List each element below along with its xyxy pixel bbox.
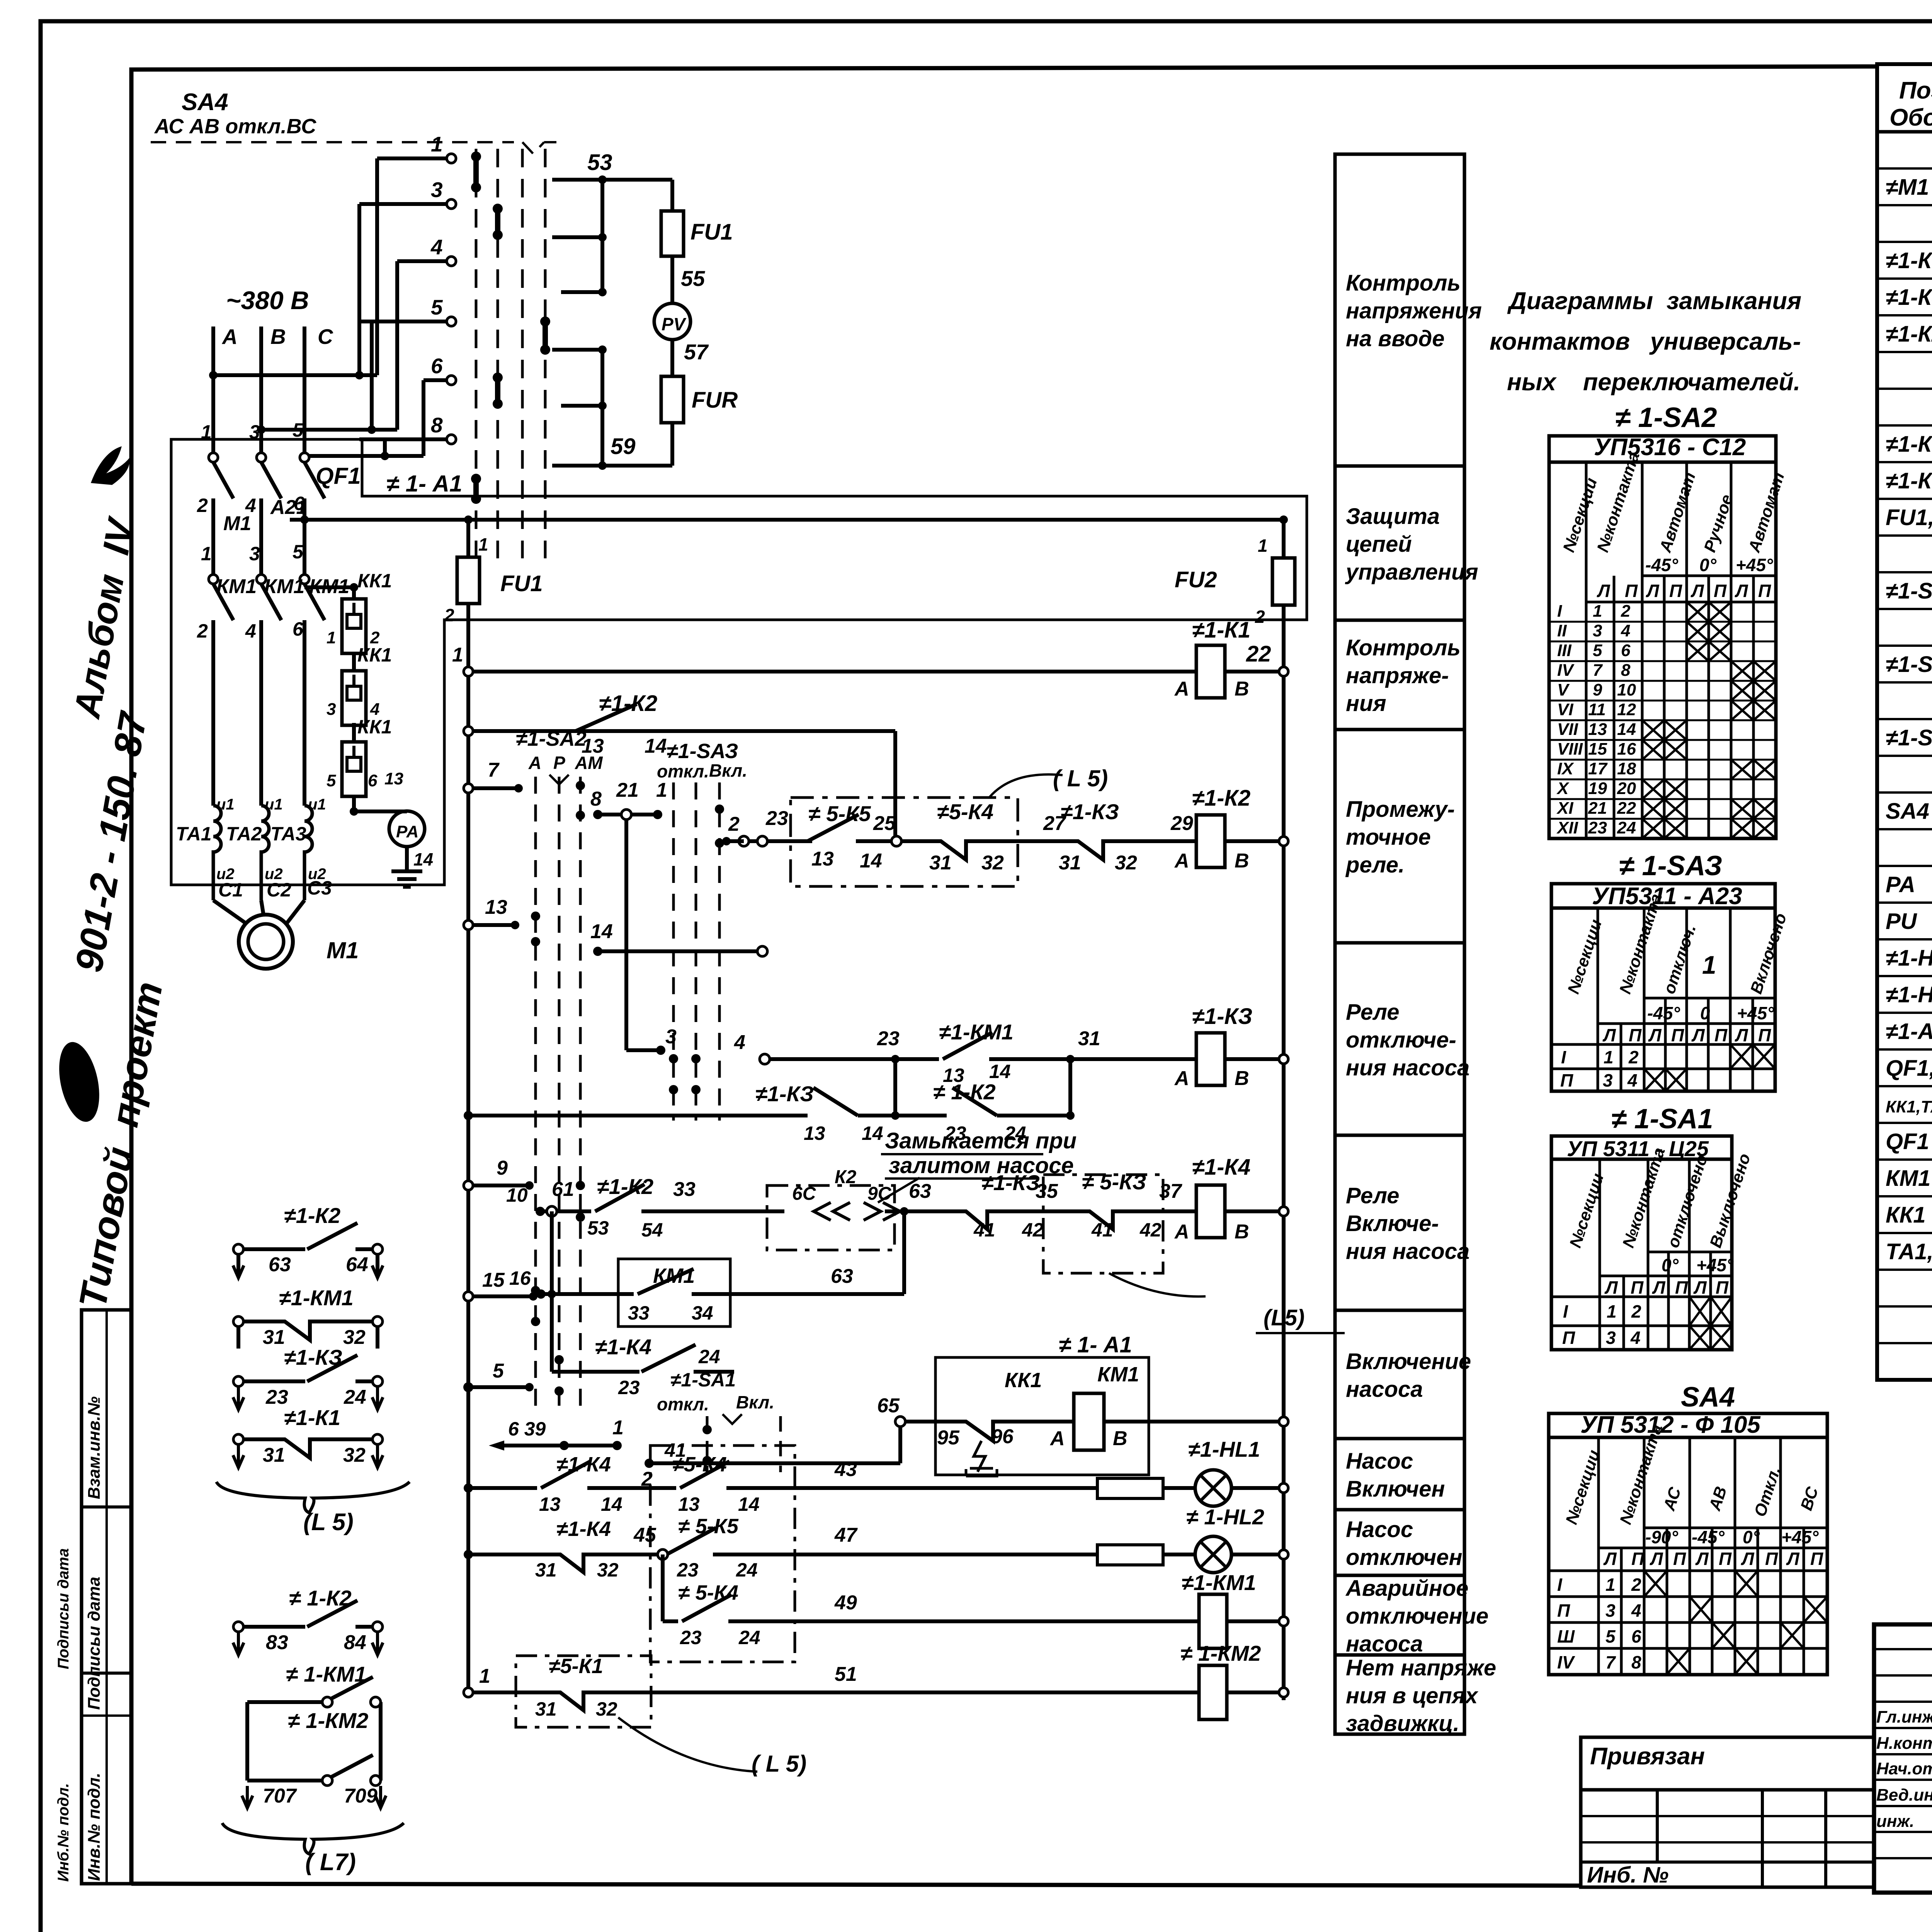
svg-text:49: 49	[834, 1592, 857, 1614]
svg-text:≠1-КЗ: ≠1-КЗ	[981, 1170, 1040, 1195]
svg-text:≠1-HL1: ≠1-HL1	[1886, 946, 1932, 971]
parts list table grid	[1877, 64, 1932, 1380]
svg-text:13: 13	[811, 848, 834, 870]
svg-text:УП 5311 - Ц25: УП 5311 - Ц25	[1567, 1136, 1709, 1161]
svg-text:≠1-К4: ≠1-К4	[595, 1335, 651, 1359]
svg-text:П: П	[1810, 1549, 1823, 1569]
svg-text:83: 83	[266, 1631, 288, 1654]
contact 5-K5 23-24	[667, 1528, 716, 1554]
svg-text:2: 2	[197, 620, 208, 642]
svg-text:Л: Л	[1690, 581, 1704, 601]
ballast resistor	[1097, 1545, 1163, 1565]
svg-text:6: 6	[294, 493, 305, 514]
svg-text:Подписьи дата: Подписьи дата	[55, 1548, 72, 1669]
svg-text:≠1-КЗ,К4: ≠1-КЗ,К4	[1886, 285, 1932, 310]
svg-text:Инб. №: Инб. №	[1587, 1862, 1668, 1888]
ground symbol	[391, 871, 422, 887]
svg-text:≠1-К1: ≠1-К1	[1192, 617, 1250, 643]
svg-text:5: 5	[1605, 1626, 1616, 1646]
svg-text:23: 23	[677, 1559, 699, 1581]
svg-text:10: 10	[506, 1184, 528, 1206]
svg-text:≠1-HL2: ≠1-HL2	[1886, 982, 1932, 1007]
svg-text:51: 51	[835, 1663, 857, 1685]
parts table rows text	[1886, 136, 1932, 1338]
svg-text:33: 33	[628, 1302, 650, 1324]
SA3 moving contacts	[717, 809, 722, 843]
svg-text:насоса: насоса	[1346, 1377, 1423, 1402]
svg-text:41: 41	[1091, 1219, 1113, 1241]
svg-text:XI: XI	[1556, 799, 1573, 818]
svg-text:FU2: FU2	[1175, 567, 1217, 592]
svg-text:9: 9	[497, 1157, 508, 1179]
svg-text:Гл.инж.пр: Гл.инж.пр	[1876, 1708, 1932, 1726]
svg-text:32: 32	[597, 1559, 619, 1581]
svg-text:FU1: FU1	[500, 571, 543, 596]
svg-text:3: 3	[1605, 1600, 1616, 1621]
svg-text:цепей: цепей	[1346, 532, 1412, 557]
svg-text:4: 4	[245, 495, 256, 516]
svg-text:≠ 5-К5: ≠ 5-К5	[678, 1515, 739, 1538]
svg-text:1: 1	[1593, 602, 1602, 621]
svg-text:31: 31	[535, 1698, 557, 1720]
svg-text:24: 24	[344, 1386, 366, 1408]
svg-text:А: А	[221, 325, 238, 349]
svg-text:3: 3	[249, 421, 260, 443]
svg-text:≠1-SАЗ: ≠1-SАЗ	[667, 740, 738, 763]
svg-text:Л: Л	[1646, 581, 1660, 601]
svg-text:Л: Л	[1693, 1277, 1707, 1298]
svg-text:Взам.инв.№: Взам.инв.№	[85, 1396, 104, 1499]
svg-text:Обознач: Обознач	[1889, 104, 1932, 131]
svg-text:-90°: -90°	[1645, 1527, 1678, 1547]
KK1 reset symbol	[966, 1441, 997, 1476]
svg-text:0: 0	[1700, 1003, 1710, 1023]
svg-text:ния в цепях: ния в цепях	[1346, 1683, 1479, 1708]
svg-text:ТА1: ТА1	[176, 823, 212, 845]
rung 1 wire	[468, 670, 1196, 673]
svg-text:8: 8	[431, 413, 443, 437]
svg-text:≠ 1-HL2: ≠ 1-HL2	[1186, 1505, 1264, 1529]
svg-text:Защита: Защита	[1346, 504, 1440, 529]
svg-text:≠1-А1: ≠1-А1	[1886, 1019, 1932, 1044]
dash-dot enclosure L5 top	[791, 774, 1063, 886]
svg-text:Насос: Насос	[1346, 1517, 1413, 1542]
svg-text:КМ1: КМ1	[264, 575, 304, 598]
rung 10 wire	[468, 1690, 537, 1694]
svg-text:≠1-КМ1: ≠1-КМ1	[939, 1020, 1014, 1044]
svg-text:I: I	[1557, 602, 1562, 621]
svg-text:Вкл.: Вкл.	[736, 1392, 774, 1412]
svg-text:4: 4	[1630, 1328, 1641, 1348]
dash-dot box around 5-K3	[1043, 1175, 1163, 1273]
svg-text:24: 24	[738, 1627, 760, 1648]
svg-text:Ш: Ш	[1557, 1626, 1575, 1646]
svg-text:4: 4	[245, 620, 256, 642]
svg-text:П: П	[1671, 1025, 1684, 1045]
thermal relay KK1 heaters	[352, 587, 356, 599]
svg-text:А: А	[1174, 850, 1189, 872]
svg-text:0°: 0°	[1662, 1255, 1679, 1275]
svg-text:15: 15	[482, 1269, 505, 1291]
svg-text:+45°: +45°	[1737, 1003, 1774, 1023]
svg-text:≠ 1- А1: ≠ 1- А1	[1059, 1332, 1132, 1357]
stub 7	[468, 786, 519, 790]
svg-text:≠1-КМ1: ≠1-КМ1	[1182, 1570, 1256, 1595]
node 53 vertical collector	[600, 180, 604, 292]
svg-text:≠1-КН1,: ≠1-КН1,	[1886, 432, 1932, 457]
svg-text:QF1: QF1	[316, 463, 361, 489]
current transformers TA1 TA2 TA3	[213, 806, 221, 900]
svg-text:14: 14	[989, 1061, 1011, 1082]
svg-text:57: 57	[684, 340, 709, 364]
svg-text:П: П	[1673, 1549, 1686, 1569]
svg-text:14: 14	[1617, 720, 1636, 739]
svg-text:Н.контр.: Н.контр.	[1876, 1734, 1932, 1753]
svg-text:3: 3	[327, 700, 336, 719]
stub 15	[468, 1294, 533, 1298]
svg-text:14: 14	[601, 1493, 622, 1515]
wire C to SA4 contact 6	[304, 454, 423, 458]
svg-text:≠5-К1: ≠5-К1	[549, 1655, 603, 1678]
contact 5-K4 13-14	[680, 1461, 730, 1488]
svg-text:41: 41	[664, 1439, 686, 1461]
svg-text:1: 1	[478, 534, 488, 554]
svg-text:8: 8	[1621, 661, 1631, 680]
svg-text:КК1: КК1	[357, 716, 392, 738]
svg-text:2: 2	[1255, 607, 1265, 627]
svg-text:≠1-КМ1: ≠1-КМ1	[279, 1286, 354, 1310]
svg-text:Л: Л	[1650, 1549, 1663, 1569]
svg-text:1: 1	[431, 132, 443, 156]
riser from 45 node	[661, 1554, 665, 1621]
svg-text:23: 23	[765, 807, 788, 830]
svg-text:Л: Л	[1735, 1025, 1748, 1045]
svg-text:5: 5	[431, 295, 443, 319]
svg-text:11: 11	[1588, 700, 1606, 719]
svg-text:16: 16	[1617, 740, 1636, 759]
svg-text:Реле: Реле	[1346, 1183, 1399, 1208]
title block text	[1876, 1651, 1932, 1924]
svg-text:0°: 0°	[1699, 555, 1717, 575]
wire 2 to node 65	[649, 1461, 900, 1465]
ballast resistor	[1097, 1478, 1163, 1498]
privyazan block	[1581, 1737, 1874, 1887]
svg-text:IV: IV	[1557, 1652, 1575, 1672]
svg-text:23: 23	[618, 1377, 640, 1398]
svg-text:2: 2	[197, 495, 208, 516]
svg-text:QF1,КМ1,: QF1,КМ1,	[1886, 1056, 1932, 1081]
svg-text:инж.: инж.	[1876, 1812, 1914, 1831]
svg-text:53: 53	[587, 150, 612, 175]
svg-text:9С: 9С	[867, 1184, 892, 1204]
svg-text:FU1,FUR: FU1,FUR	[1886, 505, 1932, 530]
svg-text:22: 22	[1246, 641, 1271, 667]
relay coil 1-K1	[1196, 645, 1225, 698]
svg-text:8: 8	[590, 788, 602, 810]
svg-text:SА4: SА4	[1886, 799, 1929, 824]
svg-text:47: 47	[834, 1524, 858, 1546]
svg-text:6: 6	[1631, 1626, 1641, 1646]
svg-text:П: П	[1765, 1549, 1778, 1569]
svg-text:П: П	[1560, 1070, 1573, 1090]
svg-text:1: 1	[479, 1665, 490, 1687]
svg-text:6: 6	[1621, 641, 1631, 660]
svg-text:П: П	[1714, 581, 1727, 601]
svg-text:≠М1: ≠М1	[1886, 175, 1929, 200]
svg-text:контактов универсаль-: контактов универсаль-	[1490, 328, 1801, 355]
svg-text:-45°: -45°	[1692, 1527, 1725, 1547]
svg-text:FUR: FUR	[692, 388, 738, 413]
svg-text:4: 4	[1621, 621, 1630, 640]
svg-text:+45°: +45°	[1736, 555, 1773, 575]
svg-text:П: П	[1562, 1328, 1575, 1348]
svg-text:4: 4	[370, 700, 379, 719]
svg-text:напряжения: напряжения	[1346, 298, 1482, 323]
svg-text:84: 84	[344, 1631, 366, 1654]
svg-text:15: 15	[1588, 740, 1607, 759]
unit 1-A1 box	[935, 1357, 1149, 1475]
svg-text:ТА2: ТА2	[226, 823, 262, 845]
svg-text:13: 13	[1588, 720, 1607, 739]
svg-text:63: 63	[831, 1265, 853, 1287]
svg-text:КК1: КК1	[357, 570, 392, 592]
svg-text:14: 14	[862, 1122, 883, 1144]
svg-text:1: 1	[201, 543, 212, 565]
svg-text:Поз.: Поз.	[1899, 77, 1932, 104]
svg-text:95: 95	[937, 1427, 960, 1449]
svg-text:≠1-К1: ≠1-К1	[1886, 248, 1932, 273]
contact 1-K3 41-42	[951, 1211, 1024, 1229]
rung 8 wire	[468, 1553, 537, 1556]
svg-text:АМ: АМ	[575, 753, 603, 773]
svg-text:6: 6	[293, 618, 304, 640]
svg-text:Замыкается при: Замыкается при	[885, 1128, 1077, 1153]
contact 1-K4 13-14	[541, 1461, 590, 1488]
KK1 wiring	[304, 585, 354, 589]
brace L5	[216, 1482, 410, 1513]
svg-text:≠ 5-К4: ≠ 5-К4	[678, 1581, 738, 1604]
svg-text:Нач.отд.: Нач.отд.	[1876, 1759, 1932, 1778]
svg-text:≠1-К2: ≠1-К2	[597, 1174, 653, 1199]
svg-text:QF1: QF1	[1886, 1129, 1929, 1154]
svg-text:I: I	[1557, 1575, 1563, 1595]
svg-text:54: 54	[641, 1219, 663, 1241]
svg-text:PU: PU	[1886, 909, 1918, 934]
fuse FU1 control	[457, 557, 480, 604]
svg-text:П: П	[1714, 1025, 1728, 1045]
risers to rung 4	[893, 1059, 897, 1116]
svg-text:управления: управления	[1345, 560, 1478, 585]
svg-text:53: 53	[587, 1217, 609, 1239]
svg-text:1: 1	[612, 1417, 624, 1439]
left margin stamp column	[82, 1310, 132, 1884]
svg-text:6: 6	[368, 771, 378, 790]
stub 13	[468, 923, 515, 927]
svg-text:709: 709	[344, 1785, 378, 1807]
control tap wire A21	[290, 518, 1284, 522]
svg-text:( L 5): ( L 5)	[1053, 765, 1108, 791]
svg-text:Л: Л	[1597, 581, 1611, 601]
svg-text:96: 96	[991, 1425, 1014, 1448]
svg-text:откл.: откл.	[657, 1394, 709, 1414]
svg-text:напряже-: напряже-	[1346, 663, 1449, 688]
svg-text:1: 1	[1702, 951, 1716, 979]
voltmeter PV	[654, 303, 690, 340]
svg-text:1: 1	[656, 779, 667, 801]
svg-text:23: 23	[1588, 818, 1607, 837]
svg-text:IV: IV	[1557, 661, 1575, 680]
svg-text:А: А	[1049, 1427, 1065, 1450]
svg-text:59: 59	[611, 434, 636, 459]
svg-text:ТА1,2,3: ТА1,2,3	[1886, 1239, 1932, 1264]
svg-text:АС АВ откл.ВС: АС АВ откл.ВС	[154, 115, 316, 138]
svg-text:3: 3	[1603, 1070, 1613, 1090]
SA4 fixed contact terminals	[377, 156, 449, 160]
svg-text:Включе-: Включе-	[1346, 1211, 1439, 1236]
svg-text:(L 5): (L 5)	[303, 1509, 354, 1536]
relay coil 1-K2	[1196, 815, 1225, 867]
svg-text:КК1: КК1	[1886, 1202, 1926, 1228]
svg-text:6: 6	[431, 354, 443, 378]
svg-text:П: П	[1629, 1025, 1642, 1045]
circuit breaker QF1	[211, 448, 215, 453]
svg-text:23: 23	[680, 1627, 702, 1648]
svg-text:≠ 1-SА2: ≠ 1-SА2	[1615, 402, 1717, 433]
svg-text:реле.: реле.	[1345, 852, 1405, 878]
SA2 moving contacts	[578, 786, 583, 815]
svg-text:19: 19	[1588, 779, 1607, 798]
stub 5	[468, 1385, 529, 1389]
SA1 moving contact	[704, 1430, 710, 1461]
svg-text:32: 32	[343, 1444, 366, 1466]
svg-text:В: В	[1235, 1067, 1249, 1090]
svg-text:23: 23	[877, 1027, 900, 1050]
svg-text:31: 31	[263, 1444, 285, 1466]
rung 5 wire	[540, 1209, 552, 1213]
svg-text:32: 32	[343, 1326, 366, 1349]
svg-text:42: 42	[1022, 1219, 1044, 1241]
contact 1-K3 31-32	[1012, 841, 1155, 860]
svg-text:V: V	[1557, 680, 1570, 699]
wire C tap to SA4 contact 8	[383, 439, 387, 456]
svg-text:В: В	[1113, 1427, 1128, 1450]
svg-text:≠1-SА2: ≠1-SА2	[516, 727, 587, 750]
svg-text:3: 3	[1606, 1328, 1616, 1348]
svg-text:Л: Л	[1648, 1025, 1662, 1045]
lamp 1-HL2	[1195, 1536, 1231, 1573]
switch SA4 section dashed lines	[475, 149, 478, 558]
svg-text:XII: XII	[1556, 818, 1578, 837]
svg-text:РА: РА	[396, 822, 418, 841]
svg-text:FU1: FU1	[690, 219, 733, 245]
svg-text:УП 5312 - Ф 105: УП 5312 - Ф 105	[1580, 1412, 1761, 1438]
svg-text:SА4: SА4	[182, 89, 228, 116]
svg-text:3: 3	[249, 543, 260, 565]
wire 39-1	[504, 1444, 617, 1447]
coil 1-KM2	[1199, 1665, 1227, 1719]
svg-text:45: 45	[633, 1524, 656, 1546]
relay coil 1-K3	[1196, 1033, 1225, 1085]
svg-text:≠1-К2: ≠1-К2	[1886, 321, 1932, 347]
svg-text:П: П	[1758, 581, 1771, 601]
svg-text:точное: точное	[1346, 825, 1431, 850]
svg-text:С2: С2	[267, 879, 291, 901]
svg-text:В: В	[1235, 678, 1249, 700]
svg-text:4: 4	[1631, 1600, 1641, 1621]
svg-text:14: 14	[590, 920, 613, 943]
svg-text:Контроль: Контроль	[1346, 270, 1461, 296]
svg-text:А: А	[1174, 1067, 1189, 1090]
svg-text:КМ1: КМ1	[216, 575, 257, 598]
svg-text:I: I	[1563, 1301, 1568, 1321]
contactor KM1 main contacts	[211, 570, 215, 575]
svg-text:≠1-SА1: ≠1-SА1	[670, 1369, 736, 1391]
svg-text:VIII: VIII	[1557, 740, 1583, 759]
svg-text:на вводе: на вводе	[1346, 326, 1445, 351]
svg-text:≠ 1-КМ2: ≠ 1-КМ2	[1180, 1641, 1261, 1665]
svg-text:+45°: +45°	[1781, 1527, 1819, 1547]
svg-text:43: 43	[834, 1458, 857, 1481]
svg-text:≠ 5-КЗ: ≠ 5-КЗ	[1082, 1170, 1146, 1194]
phase vertical wires A B C	[211, 327, 215, 448]
svg-text:IX: IX	[1557, 759, 1574, 778]
svg-text:В: В	[1235, 1221, 1249, 1243]
svg-text:отключение: отключение	[1346, 1604, 1488, 1629]
probe arrows	[814, 1202, 850, 1220]
fuse FU2 control	[1272, 558, 1295, 605]
svg-text:задвижкц.: задвижкц.	[1346, 1711, 1459, 1736]
svg-text:14: 14	[413, 849, 433, 869]
svg-text:8: 8	[1631, 1652, 1641, 1672]
svg-text:61: 61	[552, 1178, 574, 1201]
contact 5-K3 41-42	[1066, 1211, 1157, 1229]
svg-text:I: I	[1561, 1047, 1566, 1067]
svg-text:2: 2	[1631, 1301, 1641, 1321]
svg-text:≠5-К4: ≠5-К4	[937, 799, 993, 824]
contact 5-K4 23-24	[682, 1595, 731, 1621]
wire B to SA4 contact 4	[261, 428, 397, 432]
vertical project title	[66, 514, 171, 1311]
svg-text:-45°: -45°	[1647, 1003, 1680, 1023]
svg-text:Л: Л	[1602, 1025, 1616, 1045]
svg-text:7: 7	[1605, 1652, 1616, 1672]
rung 2 wire with contact 1-K2 13-14	[468, 729, 572, 733]
parts table headers	[1889, 77, 1932, 131]
wire A tap to SA4 contact 3	[357, 204, 361, 375]
svg-text:7: 7	[1593, 661, 1603, 680]
svg-text:21: 21	[1588, 799, 1607, 818]
svg-text:7: 7	[488, 759, 500, 781]
svg-text:Привязан: Привязан	[1590, 1743, 1705, 1770]
svg-text:II: II	[1557, 621, 1567, 640]
svg-text:и1: и1	[216, 796, 235, 813]
svg-text:≠1-SА2: ≠1-SА2	[1886, 652, 1932, 677]
svg-text:Включен: Включен	[1346, 1476, 1445, 1502]
svg-text:Насос: Насос	[1346, 1449, 1413, 1474]
svg-text:П: П	[1675, 1277, 1688, 1298]
svg-text:≠1-КЗ: ≠1-КЗ	[1061, 799, 1119, 824]
diagrams caption	[1490, 287, 1801, 396]
svg-text:П: П	[1625, 581, 1638, 601]
svg-text:Контроль: Контроль	[1346, 635, 1461, 660]
svg-text:КК1: КК1	[357, 644, 392, 666]
stub 9	[468, 1184, 529, 1187]
svg-text:10: 10	[1617, 680, 1636, 699]
svg-text:1: 1	[201, 421, 212, 443]
svg-text:31: 31	[929, 852, 952, 874]
svg-text:отключе-: отключе-	[1346, 1027, 1456, 1053]
svg-text:Подписьи дата: Подписьи дата	[85, 1577, 104, 1710]
